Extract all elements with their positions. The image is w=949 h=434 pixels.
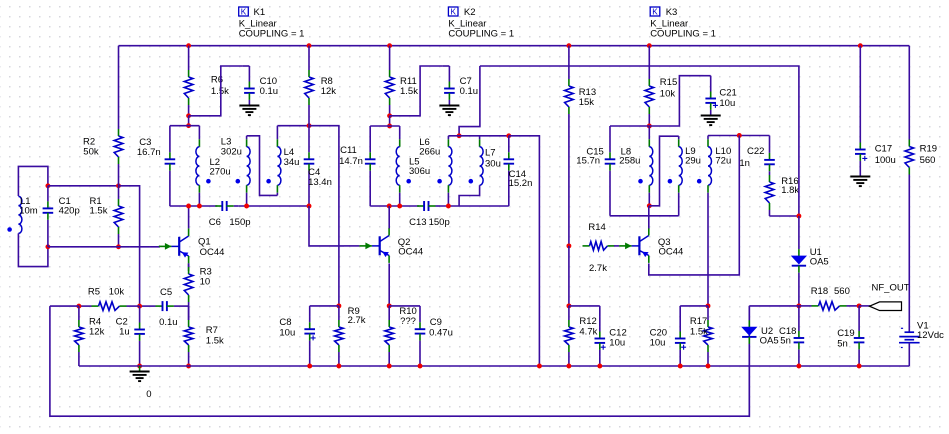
ground C21 [701, 116, 721, 126]
wire X2 link [509, 136, 540, 366]
svg-text:5n: 5n [837, 338, 848, 349]
label L10 refdes [715, 146, 731, 157]
resistor R10 [385, 306, 394, 366]
svg-text:R7: R7 [206, 325, 218, 336]
svg-text:12k: 12k [321, 86, 337, 97]
svg-text:302u: 302u [221, 147, 242, 158]
svg-text:OA5: OA5 [810, 256, 829, 267]
label R1 refdes [90, 196, 102, 207]
wire L7 bottom jog [459, 185, 480, 206]
junction node R11 bottom [387, 113, 392, 118]
wire tank2 feed [459, 66, 480, 136]
wire AGC link [119, 186, 140, 306]
junction node R12 top [566, 303, 571, 308]
svg-text:COUPLING = 1: COUPLING = 1 [239, 29, 305, 40]
label R16 value [781, 185, 799, 196]
svg-text:266u: 266u [419, 146, 440, 157]
svg-text:15k: 15k [579, 97, 595, 108]
label C21 refdes [719, 88, 736, 99]
junction tank1 top [186, 123, 191, 128]
label R10 value [400, 316, 416, 327]
label C20 refdes [650, 328, 667, 339]
junction gnd C12 [597, 364, 602, 369]
label L4 refdes [284, 147, 295, 158]
svg-text:12k: 12k [89, 327, 105, 338]
label L7 value [485, 159, 501, 170]
svg-text:10k: 10k [660, 88, 676, 99]
svg-text:R18: R18 [811, 286, 828, 297]
wire Q1 collector [188, 206, 190, 228]
label L5 value [409, 166, 430, 177]
inductor L7 [469, 136, 484, 185]
diode U1 [792, 216, 806, 306]
capacitor C2 [134, 306, 145, 366]
label C20 value [650, 337, 666, 348]
label L9 refdes [685, 146, 696, 157]
wire Q3 emitter [649, 136, 740, 275]
inductor L5 [396, 126, 411, 206]
wire L1 bottom link [18, 233, 48, 266]
label V1 value [917, 330, 944, 341]
junction tank2 L rail [457, 133, 462, 138]
label L1 value [19, 206, 38, 217]
label R13 value [579, 97, 595, 108]
label Q3 value [659, 246, 684, 257]
wire X1 link [309, 126, 339, 306]
capacitor C8 [304, 306, 315, 366]
svg-text:C8: C8 [279, 317, 291, 328]
label L4 value [284, 157, 300, 168]
capacitor C12 [595, 306, 606, 366]
junction rail1 X1 [307, 204, 312, 209]
coupling symbol K3 [650, 7, 660, 16]
label C15 refdes [586, 146, 603, 157]
label R2 value [83, 147, 99, 158]
resistor R14 [583, 242, 615, 251]
label C3 refdes [139, 137, 151, 148]
junction node det top [796, 214, 801, 219]
junction gnd R9 [336, 364, 341, 369]
svg-text:10u: 10u [650, 337, 666, 348]
label C19 value [837, 338, 848, 349]
label R17 refdes [690, 316, 707, 327]
capacitor C11 [365, 126, 376, 206]
label C13 refdes [409, 217, 426, 228]
svg-text:1.5k: 1.5k [90, 206, 108, 217]
wire R6 to tank1 [188, 116, 190, 126]
capacitor C3 [165, 126, 176, 206]
wire R16 bottom [770, 215, 799, 217]
label L1 refdes [20, 196, 31, 207]
junction gnd C20 [678, 364, 683, 369]
svg-text:COUPLING = 1: COUPLING = 1 [448, 29, 514, 40]
svg-text:4.7k: 4.7k [579, 327, 597, 338]
svg-text:2.7k: 2.7k [348, 315, 366, 326]
resistor R18 [799, 302, 859, 311]
capacitor C20 [675, 306, 686, 366]
junction node L8 bottom [647, 203, 652, 208]
label C17 value [875, 155, 896, 166]
label L6 value [419, 146, 440, 157]
label R1 value [90, 206, 108, 217]
junction gnd C8 [307, 364, 312, 369]
label C19 refdes [837, 328, 854, 339]
svg-text:NF_OUT: NF_OUT [872, 283, 910, 294]
svg-text:K3: K3 [666, 7, 678, 18]
wire P1 to C8 [310, 305, 339, 307]
svg-text:420p: 420p [59, 206, 80, 217]
label K3 model [650, 18, 688, 29]
label C21 value [719, 98, 735, 109]
junction gnd R7 [186, 364, 191, 369]
label R12 value [579, 327, 597, 338]
resistor R12 [565, 306, 574, 366]
label L7 refdes [485, 147, 496, 158]
resistor R11 [385, 46, 394, 116]
label R18 value [834, 286, 850, 297]
label C9 value [429, 327, 453, 338]
junction node P1 [336, 303, 341, 308]
svg-text:10u: 10u [609, 337, 625, 348]
label C2 refdes [116, 316, 128, 327]
wire tank1 top rail [170, 125, 200, 127]
svg-text:29u: 29u [685, 156, 701, 167]
svg-text:50k: 50k [83, 147, 99, 158]
junction node X2 [506, 133, 511, 138]
label R5 refdes [88, 287, 100, 298]
svg-text:C6: C6 [209, 217, 221, 228]
label L8 refdes [621, 146, 632, 157]
resistor R7 [184, 306, 193, 366]
svg-text:C11: C11 [340, 145, 357, 156]
label C9 refdes [430, 317, 442, 328]
wire L rail2 [448, 135, 508, 137]
junction rail1 Q1C [186, 204, 191, 209]
label R11 value [400, 86, 418, 97]
inductor L3 [236, 136, 251, 206]
wire L1 top link [18, 166, 48, 196]
svg-text:L4: L4 [284, 147, 295, 158]
wire Q2 collector [388, 206, 390, 228]
label C6 value [229, 217, 250, 228]
label C1 refdes [59, 196, 71, 207]
label L5 refdes [409, 157, 420, 168]
wire ground bus [79, 365, 909, 367]
junction bus R6 [186, 43, 191, 48]
inductor L4 [266, 126, 281, 196]
wire Q2 base net [309, 206, 344, 246]
svg-text:R19: R19 [920, 143, 937, 154]
junction rail2 L5 [397, 204, 402, 209]
transistor Q1 [159, 228, 189, 263]
wire Q1 base net [48, 246, 160, 248]
svg-text:0.47u: 0.47u [429, 327, 453, 338]
svg-text:0.1u: 0.1u [460, 86, 479, 97]
capacitor C4 [304, 126, 315, 206]
ground C10 [239, 106, 259, 116]
svg-text:560: 560 [920, 155, 936, 166]
label C12 refdes [609, 328, 626, 339]
wire tank2 bottom rail [370, 205, 419, 207]
label R5 value [109, 287, 125, 298]
junction gnd R17 [706, 364, 711, 369]
label Q3 refdes [658, 237, 671, 248]
transistor Q2 [344, 228, 389, 263]
junction node R15 bottom [647, 124, 652, 129]
wire port wire [859, 305, 870, 307]
wire R15 to C21 [649, 76, 703, 126]
wire R13 to R12 [568, 246, 570, 306]
label C22 refdes [747, 146, 764, 157]
label L10 value [715, 156, 731, 167]
label L8 value [619, 156, 640, 167]
svg-text:13.4n: 13.4n [308, 177, 332, 188]
label U2 refdes [761, 326, 773, 337]
svg-text:COUPLING = 1: COUPLING = 1 [650, 29, 716, 40]
svg-text:306u: 306u [409, 166, 430, 177]
capacitor C10 [242, 66, 255, 106]
svg-text:150p: 150p [429, 217, 450, 228]
label L6 refdes [419, 137, 430, 148]
wire R10 to C9 [389, 305, 420, 307]
label L2 refdes [210, 157, 221, 168]
capacitor C22 [764, 136, 775, 172]
junction node R1 top [116, 183, 121, 188]
svg-text:OC44: OC44 [398, 246, 423, 257]
svg-text:1.5k: 1.5k [400, 86, 418, 97]
label R9 refdes [348, 306, 360, 317]
svg-text:OA5: OA5 [760, 335, 779, 346]
junction node X1 [307, 123, 312, 128]
wire tank3 top rail [610, 125, 649, 127]
label C13 value [429, 217, 450, 228]
junction node NF [857, 303, 862, 308]
wire tank2 top rail [370, 125, 400, 127]
svg-text:C22: C22 [747, 146, 764, 157]
label C1 value [59, 206, 80, 217]
svg-text:1.8k: 1.8k [781, 185, 799, 196]
svg-text:K: K [241, 7, 247, 16]
junction gnd C18 [796, 364, 801, 369]
junction rail1 L3 [244, 204, 249, 209]
svg-text:K: K [652, 7, 658, 16]
label Q2 refdes [398, 237, 411, 248]
label R8 value [321, 86, 337, 97]
svg-text:K1: K1 [254, 7, 266, 18]
label K1 model [239, 18, 277, 29]
wire R17 to C20 [680, 305, 708, 307]
wire AGC loop [50, 306, 749, 416]
label C2 value [119, 327, 130, 338]
label C10 value [260, 86, 279, 97]
wire R11 to tank2 [389, 116, 391, 126]
capacitor C7 [442, 66, 455, 106]
svg-text:0.1u: 0.1u [159, 317, 178, 328]
label Q1 refdes [198, 236, 211, 247]
junction node R1 bottom [116, 244, 121, 249]
label K2 refdes [464, 7, 476, 18]
junction rail1 L2 [197, 204, 202, 209]
junction gnd C9 [418, 364, 423, 369]
label U1 value [810, 256, 829, 267]
wire L4 top rail [277, 125, 309, 127]
label U1 refdes [810, 247, 822, 258]
diode U2 [742, 306, 756, 416]
resistor R6 [184, 46, 193, 116]
capacitor C1 [43, 186, 54, 247]
svg-text:1n: 1n [739, 158, 750, 169]
capacitor C18 [794, 306, 805, 366]
label C14 refdes [509, 169, 526, 180]
junction bus R15 [647, 43, 652, 48]
svg-text:258u: 258u [619, 156, 640, 167]
wire bus to R2 [118, 46, 120, 129]
label Q1 value [200, 247, 225, 258]
label K2 coupling [448, 29, 514, 40]
wire R3 to R7 [188, 306, 190, 320]
resistor R5 [79, 302, 140, 311]
resistor R19 [905, 140, 914, 328]
junction node C5 left [137, 304, 142, 309]
svg-text:R15: R15 [660, 77, 677, 88]
label C5 refdes [160, 287, 172, 298]
label R9 value [348, 315, 366, 326]
svg-text:10u: 10u [719, 98, 735, 109]
inductor L6 [437, 136, 452, 206]
junction gnd X2 [537, 364, 542, 369]
label C7 value [460, 86, 479, 97]
junction gnd C2 [137, 364, 142, 369]
label L2 value [210, 166, 231, 177]
label R4 refdes [89, 316, 101, 327]
resistor R8 [305, 46, 314, 126]
transistor Q3 [614, 228, 649, 263]
resistor R16 [765, 171, 774, 216]
junction rail2 Q2C [387, 204, 392, 209]
svg-text:10u: 10u [279, 327, 295, 338]
source V1 [899, 327, 920, 366]
label C6 refdes [209, 217, 221, 228]
label C11 refdes [340, 145, 357, 156]
svg-text:2.7k: 2.7k [589, 263, 607, 274]
svg-text:R17: R17 [690, 316, 707, 327]
svg-text:30u: 30u [485, 159, 501, 170]
junction input bottom [45, 244, 50, 249]
label C18 refdes [779, 326, 796, 337]
label C18 value [780, 335, 791, 346]
junction node R4 top [76, 304, 81, 309]
junction bus R8 [307, 43, 312, 48]
label R13 refdes [579, 87, 596, 98]
wire Vcc bus [119, 45, 910, 47]
svg-text:14.7n: 14.7n [339, 156, 363, 167]
resistor R3 [184, 263, 193, 306]
label R19 value [920, 155, 936, 166]
label R17 value [690, 327, 708, 338]
label R15 value [660, 88, 676, 99]
label K2 model [448, 18, 486, 29]
svg-text:72u: 72u [715, 156, 731, 167]
svg-text:L7: L7 [485, 147, 496, 158]
resistor R17 [704, 306, 713, 366]
label C4 refdes [308, 167, 320, 178]
capacitor C9 [415, 306, 426, 366]
svg-text:K2: K2 [464, 7, 476, 18]
ground 0 [130, 366, 150, 381]
label Q2 value [398, 246, 423, 257]
label C8 refdes [279, 317, 291, 328]
label R7 value [206, 335, 224, 346]
svg-text:34u: 34u [284, 157, 300, 168]
junction node L10 top [737, 133, 742, 138]
svg-text:150p: 150p [229, 217, 250, 228]
label C7 refdes [460, 76, 472, 87]
junction gnd R10 [387, 364, 392, 369]
label NF_OUT name [872, 283, 910, 294]
label C8 value [279, 327, 295, 338]
label L3 refdes [221, 136, 232, 147]
svg-text:10k: 10k [109, 287, 125, 298]
svg-text:0: 0 [146, 389, 151, 400]
label C5 value [159, 317, 178, 328]
label R12 refdes [579, 316, 596, 327]
resistor R1 [114, 186, 123, 247]
resistor R9 [335, 306, 344, 366]
junction bus R13 [566, 43, 571, 48]
wire tank2 bottom rail right [440, 205, 509, 207]
svg-text:C19: C19 [837, 328, 854, 339]
capacitor C13 [417, 201, 440, 211]
svg-text:K: K [450, 7, 456, 16]
junction gnd C19 [857, 364, 862, 369]
svg-text:C5: C5 [160, 287, 172, 298]
wire tank3 bottom rail [610, 215, 679, 217]
label K3 coupling [650, 29, 716, 40]
inductor L1 [7, 196, 22, 233]
label R11 refdes [400, 76, 417, 87]
label K3 refdes [666, 7, 678, 18]
svg-text:12Vdc: 12Vdc [917, 330, 944, 341]
label R16 refdes [781, 176, 798, 187]
resistor R13 [565, 46, 574, 246]
label C4 value [308, 177, 332, 188]
capacitor C15 [605, 126, 616, 216]
label C22 value [739, 158, 750, 169]
resistor R4 [75, 306, 84, 366]
capacitor C17 [855, 46, 867, 177]
label C10 refdes [260, 76, 277, 87]
label V1 refdes [917, 320, 929, 331]
coupling symbol K1 [239, 7, 249, 16]
label C12 value [609, 337, 625, 348]
inductor L8 [638, 126, 653, 206]
inductor L10 [697, 136, 712, 306]
junction bus C17 [858, 43, 863, 48]
svg-text:100u: 100u [875, 155, 896, 166]
inductor L2 [196, 126, 211, 206]
wire L3 top jog [247, 136, 278, 196]
wire tank1 bottom rail right [238, 205, 309, 207]
capacitor C14 [504, 136, 515, 206]
label R2 refdes [83, 136, 95, 147]
label U2 value [760, 335, 779, 346]
label C11 value [339, 156, 363, 167]
label ground 0 name [146, 389, 151, 400]
junction node R6 bottom [186, 113, 191, 118]
wire L8-L9 jog [649, 136, 678, 206]
svg-text:1.5k: 1.5k [206, 335, 224, 346]
label R14 refdes [588, 222, 605, 233]
